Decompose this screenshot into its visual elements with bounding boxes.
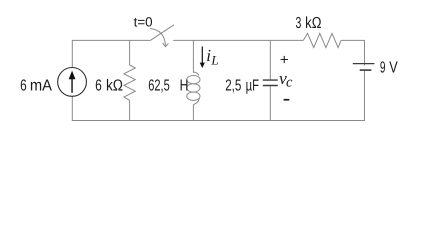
wire capacitor branch top bbox=[269, 40, 271, 80]
svg-text:V: V bbox=[389, 60, 398, 77]
wire capacitor branch bottom bbox=[269, 86, 271, 121]
svg-text:6: 6 bbox=[20, 77, 27, 94]
wire right vertical lower bbox=[364, 70, 366, 121]
wire left vertical bbox=[71, 40, 73, 120]
svg-text:kΩ: kΩ bbox=[305, 15, 321, 32]
svg-text:c: c bbox=[286, 75, 293, 91]
svg-text:+: + bbox=[280, 52, 289, 69]
wire bottom bbox=[72, 120, 365, 122]
wire 6k branch bottom bbox=[129, 100, 131, 120]
inductor current arrow iL bbox=[201, 47, 203, 64]
capacitor C1 plates bbox=[263, 80, 278, 85]
resistor R2 3 kOhm zigzag bbox=[303, 33, 341, 47]
svg-text:t=0: t=0 bbox=[134, 14, 153, 29]
label minus polarity bbox=[284, 99, 290, 101]
svg-text:L: L bbox=[210, 53, 218, 68]
svg-text:H: H bbox=[180, 77, 189, 94]
wire 6k branch top bbox=[129, 40, 131, 65]
current source arrow bbox=[71, 79, 73, 93]
wire top middle and right bbox=[173, 39, 365, 41]
svg-text:mA: mA bbox=[30, 77, 52, 94]
wire inductor branch top bbox=[192, 40, 194, 72]
svg-text:kΩ: kΩ bbox=[106, 77, 123, 94]
current source I1 circle bbox=[58, 68, 87, 97]
wire inductor branch bottom bbox=[192, 105, 194, 121]
svg-text:2,5: 2,5 bbox=[225, 77, 241, 94]
svg-text:6: 6 bbox=[95, 77, 102, 94]
wire top left bbox=[72, 39, 151, 41]
svg-text:3: 3 bbox=[296, 15, 302, 32]
resistor R1 6 kOhm zigzag bbox=[124, 65, 135, 100]
switch arc bbox=[150, 29, 166, 47]
wire right vertical upper bbox=[364, 40, 366, 65]
svg-text:9: 9 bbox=[380, 60, 386, 77]
svg-text:62,5: 62,5 bbox=[148, 77, 170, 94]
battery V1 short plate bbox=[360, 69, 372, 71]
switch arc arrowhead bbox=[163, 43, 169, 47]
inductor L1 coil loops bbox=[187, 72, 200, 105]
switch blade bbox=[150, 25, 174, 41]
svg-text:µF: µF bbox=[246, 77, 260, 94]
battery V1 long plate bbox=[353, 63, 375, 65]
